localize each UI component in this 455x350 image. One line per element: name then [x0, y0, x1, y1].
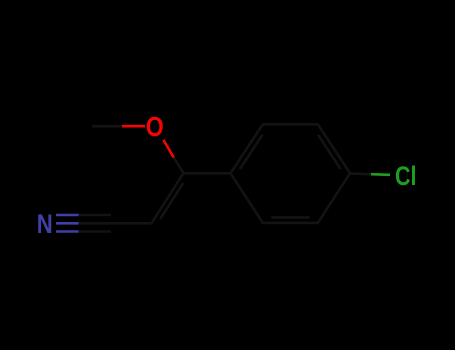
bond CH3-O oxygen half (red)	[122, 125, 145, 128]
double bond C2=C3 main line	[152, 173, 184, 223]
ring double bond inner line BR-BL	[271, 216, 310, 219]
bond ring-Cl chlorine half (green)	[371, 173, 390, 176]
nitrile triple bond C half bottom line	[79, 230, 112, 233]
bond C1-C2	[111, 222, 152, 225]
double bond C2=C3 second line	[160, 183, 183, 219]
nitrile triple bond N half (blue) bottom line	[56, 230, 79, 233]
nitrile triple bond C half top line	[79, 214, 112, 217]
ring double bond inner line TR-R	[318, 135, 341, 169]
ring double bond inner line L-TL	[240, 135, 263, 169]
bond O-C3 carbon half	[174, 158, 184, 174]
bond CH3-O carbon half (wire)	[92, 125, 122, 128]
svg-text:Cl: Cl	[395, 161, 417, 191]
bond O-C3 oxygen half (red)	[163, 140, 173, 158]
benzene ring hexagon	[231, 124, 351, 223]
nitrile triple bond C half middle line	[79, 222, 112, 225]
svg-text:N: N	[37, 209, 53, 239]
nitrile triple bond N half (blue) middle line	[56, 222, 79, 225]
bond ring-Cl carbon half	[350, 172, 371, 175]
nitrile triple bond N half (blue) top line	[56, 214, 79, 217]
bond C3-ring (ipso)	[183, 172, 230, 175]
svg-text:O: O	[146, 111, 164, 142]
